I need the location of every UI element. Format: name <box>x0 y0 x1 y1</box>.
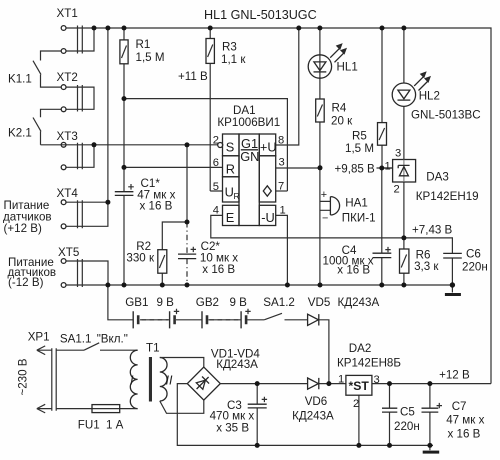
svg-text:1,1 к: 1,1 к <box>221 53 246 66</box>
svg-text:C7: C7 <box>452 400 467 413</box>
svg-text:HA1: HA1 <box>345 197 368 210</box>
svg-text:R4: R4 <box>332 102 347 115</box>
svg-text:1,5 М: 1,5 М <box>136 51 165 64</box>
svg-text:КД243А: КД243А <box>216 358 258 371</box>
svg-text:XT3: XT3 <box>57 130 78 143</box>
svg-text:R: R <box>226 161 235 176</box>
svg-text:1: 1 <box>385 161 391 173</box>
svg-text:VD6: VD6 <box>305 395 328 408</box>
svg-text:9 В: 9 В <box>230 296 248 309</box>
svg-text:ПКИ-1: ПКИ-1 <box>342 212 376 225</box>
svg-text:КД243А: КД243А <box>338 296 380 309</box>
svg-text:x 16 В: x 16 В <box>140 200 173 213</box>
svg-text:XP1: XP1 <box>28 331 50 344</box>
svg-text:−: − <box>322 213 328 225</box>
svg-text:T1: T1 <box>146 342 160 355</box>
svg-text:XT1: XT1 <box>57 7 78 20</box>
svg-text:DA2: DA2 <box>349 342 372 355</box>
svg-text:8: 8 <box>278 135 284 147</box>
svg-text:4: 4 <box>213 205 219 217</box>
svg-text:+7,43 В: +7,43 В <box>412 224 453 237</box>
svg-text:GNL-5013BC: GNL-5013BC <box>411 109 481 122</box>
svg-text:~230 В: ~230 В <box>17 358 30 395</box>
svg-text:2: 2 <box>353 398 359 410</box>
svg-text:(-12 В): (-12 В) <box>8 276 44 289</box>
svg-text:K2.1: K2.1 <box>8 127 32 140</box>
svg-text:(+12 В): (+12 В) <box>4 222 42 235</box>
svg-text:II: II <box>166 374 173 388</box>
svg-text:SA1.1: SA1.1 <box>60 333 92 346</box>
svg-text:20 к: 20 к <box>331 115 353 128</box>
svg-text:R: R <box>234 191 240 201</box>
svg-text:7: 7 <box>278 181 284 193</box>
svg-text:I: I <box>130 374 134 388</box>
svg-text:6: 6 <box>213 157 219 169</box>
svg-text:SA1.2: SA1.2 <box>263 296 295 309</box>
svg-text:330 к: 330 к <box>126 252 155 265</box>
svg-text:DA3: DA3 <box>426 171 449 184</box>
svg-text:VD5: VD5 <box>308 296 331 309</box>
svg-text:9 В: 9 В <box>157 296 175 309</box>
svg-text:1 А: 1 А <box>106 419 124 432</box>
svg-text:S: S <box>226 139 235 154</box>
svg-text:3: 3 <box>395 148 401 160</box>
svg-text:1: 1 <box>280 205 286 217</box>
svg-text:3: 3 <box>279 157 285 169</box>
svg-text:+U: +U <box>260 139 277 154</box>
svg-text:-U: -U <box>261 210 275 225</box>
svg-text:"Вкл.": "Вкл." <box>97 333 128 346</box>
svg-text:3: 3 <box>374 374 380 386</box>
svg-text:R5: R5 <box>352 130 367 143</box>
svg-text:*ST: *ST <box>349 379 370 393</box>
svg-text:+: + <box>321 189 327 201</box>
svg-text:2: 2 <box>394 184 400 196</box>
svg-text:КР142ЕН19: КР142ЕН19 <box>416 190 479 203</box>
svg-text:GB1: GB1 <box>125 296 148 309</box>
svg-text:47 мк x: 47 мк x <box>446 414 484 427</box>
svg-text:HL1 GNL-5013UGC: HL1 GNL-5013UGC <box>204 8 317 22</box>
svg-text:220н: 220н <box>394 420 420 433</box>
svg-text:КР142ЕН8Б: КР142ЕН8Б <box>337 357 401 370</box>
svg-text:220н: 220н <box>462 261 488 274</box>
svg-text:R3: R3 <box>222 41 237 54</box>
svg-text:C5: C5 <box>400 406 415 419</box>
svg-text:2: 2 <box>213 135 219 147</box>
svg-text:FU1: FU1 <box>78 419 100 432</box>
svg-text:+11 В: +11 В <box>178 70 208 83</box>
svg-text:XT5: XT5 <box>58 246 79 259</box>
svg-text:XT2: XT2 <box>57 71 78 84</box>
svg-text:XT4: XT4 <box>57 187 79 200</box>
svg-text:HL1: HL1 <box>337 61 358 74</box>
svg-text:R1: R1 <box>136 38 151 51</box>
svg-text:+9,85 В: +9,85 В <box>335 163 376 176</box>
svg-text:5: 5 <box>213 181 219 193</box>
svg-text:КР1006ВИ1: КР1006ВИ1 <box>217 116 280 129</box>
svg-text:E: E <box>226 210 235 225</box>
svg-text:1: 1 <box>338 374 344 386</box>
svg-text:x 16 В: x 16 В <box>448 428 481 441</box>
svg-text:x 16 В: x 16 В <box>202 263 235 276</box>
svg-text:x 16 В: x 16 В <box>337 264 370 277</box>
svg-text:1,5 М: 1,5 М <box>345 142 374 155</box>
svg-text:HL2: HL2 <box>419 90 440 103</box>
svg-text:GB2: GB2 <box>196 296 219 309</box>
svg-text:x 35 В: x 35 В <box>216 422 249 435</box>
svg-text:U: U <box>225 184 234 199</box>
svg-text:КД243А: КД243А <box>292 410 334 423</box>
svg-text:C6: C6 <box>466 248 481 261</box>
svg-text:GN: GN <box>240 149 259 164</box>
svg-text:3,3 к: 3,3 к <box>414 260 439 273</box>
svg-text:+12 В: +12 В <box>439 369 470 382</box>
svg-text:K1.1: K1.1 <box>8 73 32 86</box>
